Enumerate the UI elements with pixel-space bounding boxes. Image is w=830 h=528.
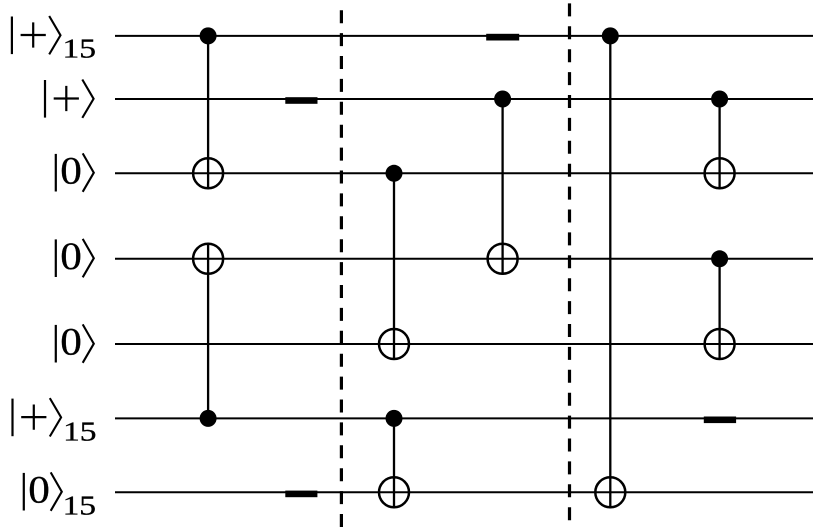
CNOT D vertical wire (q6 ctrl to q7 target) bbox=[393, 418, 395, 508]
label ket |+>_15 q6 bbox=[11, 398, 96, 446]
barrier 2 dashed bbox=[568, 3, 571, 528]
wire q4 bbox=[115, 258, 813, 260]
CNOT H vertical wire (q4 ctrl to q5 target) bbox=[718, 259, 720, 360]
CNOT C target circle q5 bbox=[379, 329, 409, 359]
label ket |0>_15 q7 bbox=[23, 469, 96, 521]
CNOT C vertical wire (q3 ctrl to q5 target) bbox=[393, 173, 395, 360]
wire q1 bbox=[115, 35, 813, 37]
CNOT D control dot q6 bbox=[386, 410, 403, 427]
label ket |0> q4 bbox=[55, 235, 94, 278]
CNOT B vertical wire (q6 ctrl to q4 target) bbox=[207, 243, 209, 419]
CNOT F vertical wire (q1 ctrl to q7 target) bbox=[609, 36, 611, 508]
wire q6 bbox=[115, 417, 813, 419]
svg-text:15: 15 bbox=[63, 416, 96, 446]
CNOT D target circle q7 bbox=[379, 477, 409, 507]
CNOT A control dot q1 bbox=[200, 27, 217, 44]
label ket |+>_15 q1 bbox=[11, 16, 96, 64]
CNOT A target circle q3 bbox=[193, 158, 223, 188]
CNOT F target circle q7 bbox=[595, 477, 625, 507]
label ket |+> q2 bbox=[44, 80, 94, 118]
error bar marker q1 bbox=[486, 34, 519, 41]
CNOT G control dot q2 bbox=[711, 91, 728, 108]
CNOT H target circle q5 bbox=[705, 329, 735, 359]
barrier 1 dashed bbox=[340, 10, 343, 528]
CNOT B target circle q4 bbox=[193, 244, 223, 274]
wire q5 bbox=[115, 343, 813, 345]
wire q7 bbox=[115, 491, 813, 493]
CNOT G vertical wire (q2 ctrl to q3 target) bbox=[718, 99, 720, 189]
error bar marker q2 bbox=[285, 97, 317, 104]
wire q2 bbox=[115, 98, 813, 100]
CNOT C control dot q3 bbox=[386, 165, 403, 182]
wire q3 bbox=[115, 172, 813, 174]
CNOT E vertical wire (q2 ctrl to q4 target) bbox=[501, 99, 503, 275]
label ket |0> q5 bbox=[55, 321, 94, 364]
CNOT E control dot q2 bbox=[494, 91, 511, 108]
CNOT F control dot q1 bbox=[602, 27, 619, 44]
svg-text:15: 15 bbox=[63, 491, 96, 521]
CNOT E target circle q4 bbox=[488, 244, 518, 274]
svg-text:15: 15 bbox=[63, 34, 96, 64]
error bar marker q7 bbox=[285, 491, 317, 498]
CNOT B control dot q6 bbox=[200, 410, 217, 427]
CNOT G target circle q3 bbox=[705, 158, 735, 188]
CNOT H control dot q4 bbox=[711, 250, 728, 267]
label ket |0> q3 bbox=[55, 150, 94, 193]
error bar marker q6 bbox=[704, 417, 736, 424]
CNOT A vertical wire (q1 ctrl to q3 target) bbox=[207, 36, 209, 189]
